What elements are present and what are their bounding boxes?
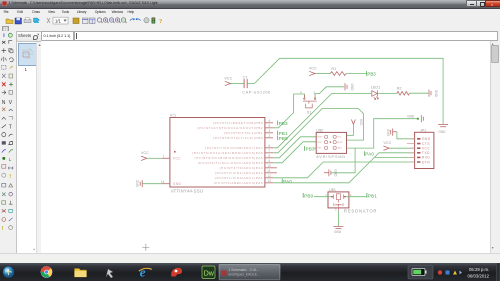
wire R2 to ground bbox=[409, 92, 428, 94]
svg-text:C1: C1 bbox=[242, 75, 247, 79]
wire net PB2 from IC1 to switch S1 bbox=[273, 94, 304, 128]
svg-text:6: 6 bbox=[268, 144, 270, 148]
svg-text:IC1: IC1 bbox=[169, 112, 176, 117]
title bar bbox=[0, 0, 500, 9]
thumbnail bbox=[18, 43, 37, 66]
net label PA0 (near JP1) bbox=[364, 151, 374, 156]
supply VCC (left of IC1) bbox=[141, 156, 147, 160]
panel scrollbar bbox=[36, 42, 41, 253]
ground GND (at R2, rotated) bbox=[429, 89, 431, 96]
svg-text:GND: GND bbox=[438, 130, 446, 134]
svg-text:RESONATOR: RESONATOR bbox=[343, 208, 376, 213]
sheets panel bbox=[16, 41, 43, 255]
svg-text:VCC: VCC bbox=[337, 136, 342, 138]
net label PB3 bbox=[366, 71, 376, 76]
svg-text:PB1: PB1 bbox=[367, 193, 376, 198]
svg-text:RST: RST bbox=[317, 147, 322, 149]
svg-text:MOSI: MOSI bbox=[337, 142, 343, 144]
Dw bbox=[202, 266, 215, 279]
svg-text:VCC: VCC bbox=[172, 156, 180, 160]
svg-text:1: 1 bbox=[162, 154, 164, 158]
svg-text:PB0: PB0 bbox=[278, 135, 287, 140]
wire branch to JP1 TXD bbox=[374, 152, 414, 157]
svg-text:3: 3 bbox=[268, 129, 270, 133]
wire net PA4 from IC1 to ISP SCK bbox=[273, 141, 316, 162]
svg-text:GND: GND bbox=[337, 147, 342, 149]
undo / redo bbox=[130, 18, 135, 20]
svg-text:RXD: RXD bbox=[421, 155, 430, 159]
svg-text:(PCINT2/AIN1/ADC2)PA2: (PCINT2/AIN1/ADC2)PA2 bbox=[215, 171, 263, 175]
parameter toolbar (mostly empty) bbox=[0, 25, 500, 31]
svg-text:PB3: PB3 bbox=[367, 71, 376, 76]
zoom icons x5 bbox=[97, 17, 126, 22]
ftdi header JP1 bbox=[414, 132, 433, 168]
save bbox=[15, 18, 22, 24]
row13 circle/arc bbox=[2, 132, 6, 136]
resistor R2 bbox=[396, 91, 409, 95]
battery tray bbox=[408, 265, 433, 279]
print bbox=[24, 19, 31, 22]
svg-text:VCC: VCC bbox=[224, 76, 232, 80]
svg-text:1/1: 1/1 bbox=[55, 18, 61, 23]
ground GND (right of GND label, rotated) bbox=[421, 115, 423, 122]
row3 move/copy bbox=[2, 48, 7, 53]
supply VCC (above ISP, pointing down) bbox=[351, 119, 355, 124]
taskbar bbox=[0, 263, 500, 281]
red app bbox=[171, 267, 182, 276]
ground GND (at S1, rotated) bbox=[345, 83, 347, 90]
svg-text:VCC: VCC bbox=[308, 66, 316, 70]
svg-text:1: 1 bbox=[325, 192, 327, 196]
svg-text:e: e bbox=[140, 264, 146, 279]
row8 pinswap/replace bbox=[2, 90, 6, 94]
layer icon bbox=[73, 18, 79, 24]
svg-text:i: i bbox=[3, 33, 5, 39]
svg-text:(PCINT4/T1/SCL/USCK/ADC4)PA4: (PCINT4/T1/SCL/USCK/ADC4)PA4 bbox=[197, 161, 262, 165]
svg-text:PB0: PB0 bbox=[304, 193, 313, 198]
svg-text:(PCINT6/OC1A/SDA/MOSI/ADC6)PA6: (PCINT6/OC1A/SDA/MOSI/ADC6)PA6 bbox=[192, 151, 263, 155]
row11 split/invoke bbox=[2, 117, 6, 119]
row12 wire/text bbox=[2, 124, 6, 127]
svg-text:CTS: CTS bbox=[421, 141, 429, 145]
wire net PA5 from IC1 to ISP MISO bbox=[273, 136, 316, 157]
svg-text:11: 11 bbox=[267, 169, 271, 173]
svg-text:7: 7 bbox=[268, 149, 270, 153]
ground GND (top-right rail end) bbox=[438, 124, 448, 126]
svg-text:LED1: LED1 bbox=[370, 85, 380, 89]
chrome bbox=[41, 266, 53, 278]
svg-text:05:29 p.m.: 05:29 p.m. bbox=[469, 267, 489, 272]
svg-text:N: N bbox=[2, 100, 6, 106]
supply VCC (at R1) bbox=[309, 71, 315, 75]
row22 bbox=[2, 209, 6, 212]
resonator U$1 bbox=[328, 191, 349, 207]
sheet combo bbox=[53, 17, 68, 24]
svg-text:R1: R1 bbox=[331, 67, 336, 71]
svg-text:!: ! bbox=[9, 173, 11, 179]
svg-text:VCC: VCC bbox=[140, 151, 148, 155]
svg-text:JP1: JP1 bbox=[419, 128, 425, 132]
wire net PA0 from IC1 pin 13 to JP1 RXD bbox=[273, 157, 415, 182]
svg-text:?: ? bbox=[159, 18, 162, 25]
net label PB0 (resonator left) bbox=[303, 193, 313, 198]
menu bar bbox=[0, 9, 500, 16]
IC1 left pin stubs bbox=[161, 158, 169, 183]
IC1 right pin stubs bbox=[264, 122, 276, 182]
wire PB0 to resonator bbox=[313, 195, 330, 197]
row16 junction/label bbox=[2, 156, 5, 159]
wire GND to IC1 pin 14 bbox=[142, 182, 162, 184]
svg-text:CAP-US1206: CAP-US1206 bbox=[242, 90, 270, 94]
svg-text:S1: S1 bbox=[306, 110, 311, 114]
svg-text:PA0: PA0 bbox=[365, 151, 374, 156]
svg-text:2: 2 bbox=[268, 134, 270, 138]
svg-text:AVRISPSMD: AVRISPSMD bbox=[316, 154, 346, 158]
net label PB3 (at IC1 pin 4) bbox=[277, 120, 287, 125]
svg-text:(PCINT10/INT0/OC0A/CKOUT)PB2: (PCINT10/INT0/OC0A/CKOUT)PB2 bbox=[197, 126, 263, 130]
wire S1 to ground bbox=[315, 86, 344, 97]
led LED1 bbox=[371, 90, 378, 99]
svg-text:U$2: U$2 bbox=[316, 128, 323, 132]
supply VCC (at JP1 VCC pin) bbox=[383, 146, 389, 150]
svg-text:GND: GND bbox=[333, 169, 337, 177]
wire net PA6 from IC1 over ISP to MOSI bbox=[273, 108, 364, 152]
active task button bbox=[219, 264, 281, 281]
wire resonator pin 2 to ground bbox=[337, 211, 339, 226]
svg-text:1 Schematic - C:\U...: 1 Schematic - C:\U... bbox=[229, 267, 259, 271]
svg-text:(PCINT0/AREF/ADC0)PA0: (PCINT0/AREF/ADC0)PA0 bbox=[213, 181, 263, 185]
go bbox=[152, 17, 155, 22]
wire net PA1 from IC1 pin 12 to JP1 DTR bbox=[273, 162, 415, 178]
svg-text:T: T bbox=[9, 124, 12, 130]
svg-text:5: 5 bbox=[268, 124, 270, 128]
wire VCC to IC1 pin 1 bbox=[146, 157, 161, 159]
svg-text:(PCINT8/XTAL1/CLKI)PB0: (PCINT8/XTAL1/CLKI)PB0 bbox=[213, 136, 263, 140]
svg-text:V: V bbox=[9, 100, 13, 106]
ic IC1 ATTINY44-SSU body bbox=[169, 117, 264, 187]
svg-text:(PCINT3/T0/ADC3)PA3: (PCINT3/T0/ADC3)PA3 bbox=[219, 166, 263, 170]
command row: sheets header + coord box + command line bbox=[0, 31, 500, 41]
tray icons bbox=[438, 270, 442, 274]
folder bbox=[75, 268, 87, 277]
origin cross mark bbox=[142, 243, 149, 250]
JP1 pin pads bbox=[417, 138, 420, 161]
wire C1 to top rail, down right side, to ground bbox=[247, 58, 443, 124]
wire VCC to C1 bbox=[230, 82, 244, 84]
capacitor C1 bbox=[244, 79, 247, 88]
svg-text:8: 8 bbox=[268, 154, 270, 158]
svg-text:PB3: PB3 bbox=[305, 146, 314, 151]
svg-text:9: 9 bbox=[268, 159, 270, 163]
stop bbox=[144, 17, 149, 22]
resistor R1 bbox=[330, 71, 346, 75]
row18 erc/errors bbox=[2, 173, 6, 177]
wire net PA7 from IC1 to LED1 bbox=[273, 93, 371, 147]
svg-text:MISO: MISO bbox=[317, 136, 323, 138]
svg-text:arodriguez_EAGLE...: arodriguez_EAGLE... bbox=[229, 272, 260, 276]
wire PB3 label to ISP bbox=[313, 147, 316, 149]
svg-text:GND: GND bbox=[386, 128, 390, 136]
svg-text:VCC: VCC bbox=[421, 146, 430, 150]
svg-text:GND: GND bbox=[421, 137, 430, 141]
wire ISP GND drop to small ground bbox=[331, 148, 355, 173]
wire LED1 to R2 bbox=[377, 92, 396, 94]
IC1 pin names (left column) bbox=[172, 156, 181, 185]
IC1 pin numbers bbox=[160, 119, 270, 184]
svg-text:06/03/2012: 06/03/2012 bbox=[468, 273, 490, 278]
svg-text:!: ! bbox=[2, 226, 4, 232]
svg-text:(PCINT11/RESET/DW)PB3: (PCINT11/RESET/DW)PB3 bbox=[213, 121, 263, 125]
gray tool icon bbox=[106, 269, 113, 278]
canvas vertical scrollbar bbox=[490, 41, 499, 253]
row20 bbox=[2, 192, 6, 196]
row14 rect/polygon bbox=[2, 141, 6, 144]
row23 bbox=[2, 217, 6, 221]
svg-text:GND: GND bbox=[407, 114, 415, 118]
canvas bbox=[41, 41, 490, 253]
IC1 pin names (right column) bbox=[192, 121, 263, 185]
show desktop bbox=[497, 263, 500, 281]
supply VCC (at C1) bbox=[224, 81, 230, 85]
status strip bbox=[0, 253, 500, 264]
row10 smash/miter bbox=[2, 107, 5, 110]
svg-text:TXD: TXD bbox=[421, 151, 429, 155]
svg-text:U$1: U$1 bbox=[329, 187, 336, 191]
net label PB0 (at IC1 pin 2) bbox=[277, 135, 287, 140]
ground GND (left of IC1, rotated) bbox=[140, 180, 142, 187]
svg-text:Dw: Dw bbox=[204, 270, 215, 277]
junction dot bbox=[416, 117, 418, 119]
svg-text:GND: GND bbox=[135, 179, 139, 187]
row21 bbox=[2, 200, 6, 203]
wire VCC to JP1 bbox=[389, 147, 415, 149]
svg-text:12: 12 bbox=[267, 174, 271, 178]
svg-text:4: 4 bbox=[300, 90, 302, 94]
wire ground to JP1 GND pin bbox=[396, 131, 414, 138]
row6 cut/paste bbox=[2, 73, 6, 77]
row19 bbox=[2, 183, 6, 186]
net label PB1 (resonator right) bbox=[366, 193, 376, 198]
svg-text:DTR: DTR bbox=[421, 160, 429, 164]
svg-text:GND: GND bbox=[172, 182, 181, 186]
svg-text:(PCINT7/ICP/OC0B/ADC7)PA7: (PCINT7/ICP/OC0B/ADC7)PA7 bbox=[205, 146, 263, 150]
net label PB3 (at ISP RST) bbox=[304, 146, 314, 151]
svg-text:14: 14 bbox=[160, 179, 164, 183]
svg-text:3: 3 bbox=[349, 192, 351, 196]
window icons bbox=[83, 18, 89, 24]
svg-text:4: 4 bbox=[268, 119, 270, 123]
row7 delete/add bbox=[2, 82, 6, 86]
svg-text:PB3: PB3 bbox=[278, 120, 287, 125]
JP1 pin names bbox=[421, 137, 430, 164]
wire R1 to net PB3 bbox=[346, 72, 366, 74]
ground GND (left of JP1, rotated) bbox=[390, 128, 396, 135]
row15 bus/net bbox=[2, 149, 6, 152]
svg-text:ATTINY44-SSU: ATTINY44-SSU bbox=[170, 188, 202, 193]
wire ISP GND to ground (up and right) bbox=[346, 118, 417, 147]
svg-text:GND: GND bbox=[334, 229, 342, 233]
row2 display/mark bbox=[2, 41, 5, 44]
ground GND (below ISP, rotated) bbox=[324, 169, 331, 176]
svg-text:VCC: VCC bbox=[383, 140, 391, 144]
isp header U$2 AVRISPSMD bbox=[316, 132, 346, 153]
row5 group/change bbox=[2, 65, 6, 69]
net label PB1 (at IC1 pin 3) bbox=[277, 130, 287, 135]
window buttons bbox=[466, 0, 477, 7]
ground GND (below resonator) bbox=[333, 226, 343, 228]
svg-text:(PCINT9/XTAL2)PB1: (PCINT9/XTAL2)PB1 bbox=[224, 131, 263, 135]
svg-text:13: 13 bbox=[267, 179, 271, 183]
svg-text:10: 10 bbox=[267, 164, 271, 168]
row17 attribute/dimension bbox=[2, 164, 6, 168]
left tool palette bbox=[0, 31, 16, 253]
svg-text:L: L bbox=[9, 156, 12, 161]
wire VCC to R1 bbox=[314, 72, 330, 74]
switch S1 bbox=[302, 94, 316, 107]
svg-text:R2: R2 bbox=[396, 86, 401, 90]
wire VCC to ISP VCC pad bbox=[346, 124, 353, 135]
svg-text:VCC: VCC bbox=[359, 119, 363, 126]
export bbox=[34, 18, 40, 22]
open bbox=[6, 19, 13, 24]
svg-text:(PCINT5/OC1B/MISO/DO/ADC5)PA5: (PCINT5/OC1B/MISO/DO/ADC5)PA5 bbox=[194, 156, 263, 160]
svg-text:GND: GND bbox=[349, 83, 353, 91]
svg-text:GND: GND bbox=[433, 89, 437, 97]
JP1 pin stubs bbox=[406, 138, 414, 161]
row4 mirror/rotate bbox=[1, 56, 6, 61]
svg-text:SCK: SCK bbox=[317, 142, 322, 144]
wire resonator to PB1 bbox=[346, 195, 366, 197]
main toolbar bbox=[0, 16, 500, 26]
cut bbox=[47, 18, 50, 23]
net label PA0 (at IC1 pin 13) bbox=[282, 178, 292, 183]
svg-text:(PCINT1/AIN0/ADC1)PA1: (PCINT1/AIN0/ADC1)PA1 bbox=[215, 176, 263, 180]
start orb bbox=[2, 265, 15, 278]
